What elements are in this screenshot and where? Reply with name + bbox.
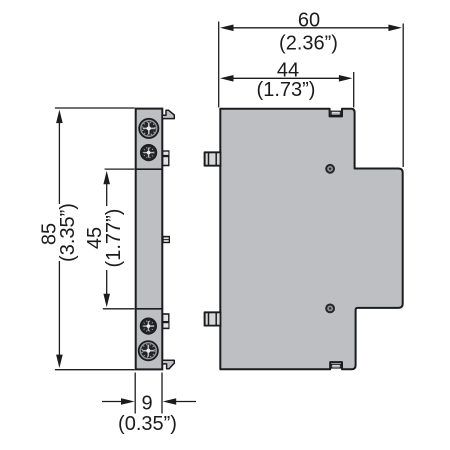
extension line 85 top — [55, 107, 135, 109]
white gap for 45 label — [101, 206, 127, 270]
arrow 44 left — [220, 75, 234, 82]
side view lower left tab — [205, 312, 221, 325]
arrow 85 top — [56, 110, 63, 124]
svg-text:(3.35”): (3.35”) — [57, 203, 79, 262]
side view screw 1 — [326, 165, 334, 173]
front view top hook — [162, 110, 174, 118]
front view part line lower — [136, 308, 163, 310]
extension line 9 left — [134, 373, 136, 414]
dim line 45 — [106, 178, 108, 299]
svg-text:9: 9 — [141, 392, 152, 414]
extension line 85 bottom — [55, 369, 135, 371]
front view spine body — [136, 109, 163, 370]
arrow 9 right (points left) — [176, 401, 196, 403]
front view bottom hook — [162, 360, 174, 369]
front view upper right tab — [162, 150, 169, 166]
arrow 45 bottom — [103, 294, 110, 308]
front screw A1 (big top) — [139, 119, 158, 138]
svg-text:(1.77”): (1.77”) — [103, 209, 125, 268]
side view upper left tab — [205, 152, 221, 165]
svg-text:(2.36”): (2.36”) — [279, 33, 338, 55]
arrow 9 left (points right) — [102, 401, 122, 403]
extension line 60 right — [402, 24, 404, 168]
arrow 85 bottom — [56, 355, 63, 369]
extension line 9 right — [161, 373, 163, 414]
side view bottom latch notch — [332, 364, 341, 368]
extension line 44 right — [353, 72, 355, 108]
extension line 45 top — [105, 168, 135, 170]
dim line 44 — [231, 77, 342, 79]
svg-text:(0.35”): (0.35”) — [118, 413, 177, 435]
front screw B1 (small) — [141, 318, 157, 334]
extension line 60/44 left — [218, 22, 220, 108]
svg-text:44: 44 — [277, 59, 299, 81]
side view body — [205, 109, 403, 370]
side view screw 2 — [326, 305, 334, 313]
front view part line upper — [136, 168, 163, 170]
arrow 45 top — [103, 171, 110, 185]
svg-text:60: 60 — [298, 9, 320, 31]
front view mid right bump — [162, 236, 170, 243]
arrow 44 right — [339, 75, 353, 82]
arrow 60 left — [220, 25, 234, 32]
front screw A2 (small) — [141, 145, 157, 161]
front screw B2 (big bottom) — [139, 341, 158, 360]
front view lower right tab — [162, 313, 169, 329]
svg-text:(1.73”): (1.73”) — [257, 79, 316, 101]
side view top latch notch — [331, 111, 340, 115]
dim line 60 — [231, 27, 391, 29]
white gap for 85 label — [52, 204, 80, 261]
arrow 60 right — [388, 25, 402, 32]
dim line 85 — [58, 119, 60, 359]
extension line 45 bottom — [103, 308, 135, 310]
